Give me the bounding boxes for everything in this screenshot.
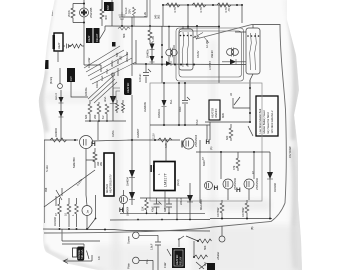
svg-text:45V: 45V [116, 59, 120, 64]
bus y140 mid [132, 139, 180, 141]
svg-text:15V ROW: 15V ROW [288, 146, 292, 158]
svg-text:100uF/W: 100uF/W [125, 51, 129, 62]
right wires of LM317 area [200, 125, 207, 203]
switch labels cluster [193, 27, 209, 44]
transistor Q2 [223, 179, 233, 189]
striped label box [73, 248, 78, 257]
svg-text:Screen: Screen [127, 235, 131, 244]
SE/B switch [233, 97, 250, 108]
Low Drain label [256, 96, 278, 136]
diagonal 0.125A [44, 170, 95, 207]
svg-text:2W: 2W [99, 162, 103, 166]
svg-text:18K40u: 18K40u [84, 87, 88, 96]
+Batter terminal [219, 236, 225, 242]
black tag METER/HTR [86, 28, 93, 43]
svg-text:HEATER: HEATER [126, 83, 130, 93]
svg-text:-76: -76 [227, 8, 231, 12]
svg-text:1N4004: 1N4004 [54, 128, 58, 137]
diode chain left [60, 90, 62, 140]
emitter resistors 0.47/5W [220, 200, 224, 218]
svg-text:RLY: RLY [69, 76, 73, 81]
bus y140 [44, 139, 78, 141]
R47 mid [236, 152, 240, 171]
svg-text:METER: METER [105, 184, 109, 193]
svg-text:HEATER/2XATV: HEATER/2XATV [109, 174, 113, 193]
vertical x162 [161, 26, 163, 64]
resistor 620 right [229, 124, 233, 141]
svg-text:2N2188: 2N2188 [89, 7, 93, 18]
resistor bank 620/200/6.2 [88, 100, 92, 121]
svg-text:(B): (B) [250, 227, 254, 230]
svg-text:458: 458 [44, 187, 48, 192]
wire top rail [163, 4, 242, 6]
relay K2 outline [246, 28, 260, 74]
resistor 200K [71, 4, 75, 23]
resistor 1.2K [148, 26, 152, 44]
svg-text:BAT: BAT [106, 5, 110, 10]
transistor 2SB1506 top [183, 138, 194, 149]
svg-text:Gx1.4: Gx1.4 [54, 93, 58, 100]
diode 1N4148 right [269, 152, 271, 218]
svg-text:Low Drain Master Batt: Low Drain Master Batt [258, 109, 262, 134]
bus y26 [105, 25, 219, 28]
resistor 4.7K (1) [166, 3, 180, 7]
section box outlines [179, 31, 242, 77]
svg-text:220uF: 220uF [179, 197, 183, 205]
svg-text:620: 620 [225, 135, 229, 140]
switch + resistors bottom right of relay [167, 236, 198, 256]
HEAT boxed label [54, 33, 63, 51]
100uF cap [145, 64, 147, 83]
transistor Q3 [244, 179, 254, 189]
terminal circle small [58, 84, 63, 89]
transformer twin circles [166, 49, 172, 55]
svg-text:620: 620 [84, 114, 88, 119]
svg-text:0.6-9V: 0.6-9V [196, 50, 200, 58]
svg-text:1.8uF: 1.8uF [150, 243, 154, 250]
svg-text:10uF: 10uF [178, 106, 182, 112]
svg-text:562: 562 [157, 14, 161, 19]
svg-text:Plate: Plate [127, 263, 131, 269]
resistor 4.7K (2) [192, 3, 206, 7]
svg-text:540: 540 [115, 52, 119, 57]
svg-text:200K: 200K [67, 9, 71, 17]
svg-text:56K: 56K [203, 245, 207, 250]
svg-text:12-16V: 12-16V [205, 40, 209, 48]
svg-text:0.47/5W: 0.47/5W [241, 207, 245, 217]
switch bottom left [88, 195, 96, 229]
svg-text:HEATER: HEATER [175, 255, 179, 265]
right bus y218 [210, 218, 272, 220]
svg-text:B+1: B+1 [169, 99, 173, 104]
svg-text:80uF/80V: 80uF/80V [199, 199, 203, 210]
wire vertical right end of rail [241, 5, 243, 23]
svg-text:MJE350: MJE350 [72, 157, 76, 168]
rotary fan wires [84, 46, 136, 103]
svg-text:112V: 112V [152, 133, 156, 139]
svg-text:F1W: F1W [163, 262, 167, 268]
svg-text:30mA: 30mA [110, 60, 114, 67]
bottom mid rails [140, 197, 190, 199]
svg-text:2SB1503: 2SB1503 [194, 135, 198, 147]
diodes left of LM317 [131, 140, 133, 205]
svg-text:H: H [214, 185, 219, 192]
svg-text:(A): (A) [209, 147, 213, 150]
resistors above bottom bus [58, 198, 62, 227]
bottom sheen [190, 225, 305, 270]
black tag left edge [43, 60, 49, 69]
cap bottom mid [155, 235, 161, 270]
switch cluster mid-left [56, 188, 62, 206]
diode right 2 [230, 59, 236, 65]
resistor after cap [71, 44, 84, 48]
svg-text:RELAY: RELAY [179, 256, 183, 265]
svg-text:H: H [236, 187, 241, 194]
bottom-left diagonal edge shading [44, 244, 108, 270]
resistor 56K small [118, 27, 130, 30]
svg-text:7mA: 7mA [105, 68, 109, 74]
svg-text:1mA: 1mA [100, 75, 104, 81]
svg-text:0.47/5W: 0.47/5W [216, 207, 220, 217]
svg-text:56K: 56K [122, 33, 126, 38]
terminals [133, 232, 140, 239]
svg-text:2SB1506: 2SB1506 [255, 178, 259, 190]
svg-text:(ADJ): (ADJ) [176, 179, 180, 186]
svg-text:tery Saver for NiCd: tery Saver for NiCd [266, 112, 270, 134]
capacitor to box [63, 44, 69, 49]
bus y64 [133, 63, 246, 66]
svg-text:1N4148: 1N4148 [53, 217, 57, 226]
fabric edge shading right [284, 0, 304, 270]
svg-text:(6min): (6min) [49, 77, 53, 84]
switch [99, 26, 105, 40]
svg-text:4.8: 4.8 [97, 256, 101, 260]
svg-text:562: 562 [119, 55, 123, 60]
svg-text:LM348N: LM348N [143, 102, 147, 112]
svg-text:AW-9V: AW-9V [210, 50, 214, 58]
wire vertical from rail [162, 5, 164, 26]
svg-text:LM4004: LM4004 [126, 206, 130, 216]
svg-text:3mA: 3mA [103, 96, 107, 102]
wire from box [131, 17, 133, 76]
svg-text:LM317T: LM317T [164, 172, 168, 187]
HEATER RELAY black box [172, 248, 185, 268]
svg-text:15K: 15K [141, 206, 145, 211]
svg-text:RELAY: RELAY [95, 33, 99, 42]
boxed label (relay note) [209, 100, 220, 120]
diode down near 317 [189, 183, 191, 219]
svg-text:47uF: 47uF [195, 119, 199, 125]
fabric panel [39, 0, 302, 270]
resistor 4.7K (3) [217, 3, 231, 7]
fabric edge shading left [37, 0, 47, 270]
svg-text:LM350T: LM350T [136, 128, 140, 138]
junction blob [112, 42, 116, 47]
wires around meter [86, 140, 132, 206]
svg-text:0.25A: 0.25A [111, 130, 115, 137]
svg-text:HEAT: HEAT [57, 42, 61, 49]
svg-text:S.12A: S.12A [45, 165, 49, 172]
svg-text:8/35: 8/35 [221, 113, 225, 118]
resistor 300 [100, 0, 104, 26]
diode mid [112, 73, 114, 121]
black tag top [104, 2, 114, 11]
svg-text:100uF/W: 100uF/W [87, 57, 91, 68]
resistor 330 2W [93, 148, 97, 168]
svg-text:1.2E: 1.2E [143, 12, 147, 17]
capacitor C1 circle [73, 0, 84, 23]
output bus y152 [196, 151, 270, 153]
svg-text:4.7K: 4.7K [199, 6, 203, 13]
svg-text:A.5T-6T: A.5T-6T [208, 61, 212, 70]
svg-text:HEATER: HEATER [211, 108, 215, 118]
wire down from cap node [58, 23, 101, 73]
arrow [63, 259, 92, 264]
twin circles 2 [227, 49, 234, 56]
transistor MJE350 [80, 136, 93, 149]
hanging comps [145, 198, 149, 213]
transistor Q5 with heatsink H [120, 196, 128, 204]
resistor on y140 [158, 138, 172, 142]
wire vertical x112 [111, 0, 113, 26]
svg-text:479: 479 [232, 165, 236, 170]
ground [119, 12, 126, 26]
svg-text:Master Battery Saver: Master Battery Saver [262, 110, 266, 133]
svg-text:H: H [206, 140, 210, 146]
svg-text:4.7K: 4.7K [173, 6, 177, 13]
transistor Q4 partial [205, 182, 213, 190]
svg-text:1N4148: 1N4148 [273, 183, 277, 192]
svg-text:6.2: 6.2 [101, 115, 105, 119]
bottom bus left [42, 229, 210, 231]
diode right-point [166, 61, 171, 66]
black tag (6min) [67, 68, 75, 82]
svg-text:ON/OFF: ON/OFF [214, 108, 218, 118]
svg-text:1N5231: 1N5231 [157, 109, 161, 118]
node dots on rail [162, 4, 243, 6]
svg-text:1.2K: 1.2K [151, 35, 155, 42]
battery box 10uF [122, 0, 147, 17]
zener [164, 83, 179, 125]
LM317 box [154, 162, 175, 191]
bottom right small tag [207, 263, 215, 270]
svg-text:12V NiCd cells 8x1.2: 12V NiCd cells 8x1.2 [270, 110, 274, 134]
svg-text:1N4004: 1N4004 [126, 177, 130, 186]
svg-text:200: 200 [93, 114, 97, 119]
cap 10uF [184, 83, 186, 125]
svg-text:SEL mA: SEL mA [80, 249, 84, 259]
relay K1 outline [179, 29, 193, 70]
svg-text:47pF: 47pF [151, 206, 155, 212]
svg-text:H: H [91, 141, 96, 148]
diode pair on x150 [151, 42, 153, 64]
svg-text:P.1u: P.1u [145, 259, 149, 264]
svg-text:10mA: 10mA [95, 81, 99, 88]
svg-text:+Batter: +Batter [216, 252, 220, 260]
wire y120 [205, 122, 250, 140]
black tag HEATER mid [124, 78, 132, 95]
svg-text:HEAT: HEAT [87, 35, 91, 42]
METER HEATER boxed label [104, 153, 114, 196]
meter circle [82, 206, 92, 216]
svg-text:6320: 6320 [202, 160, 206, 166]
faint mid wrinkles [112, 0, 120, 270]
svg-text:300: 300 [104, 15, 108, 20]
svg-text:4n7: 4n7 [163, 207, 167, 212]
svg-text:100uF: 100uF [138, 74, 142, 82]
inner box [150, 83, 262, 201]
svg-text:1N400x: 1N400x [146, 49, 150, 58]
